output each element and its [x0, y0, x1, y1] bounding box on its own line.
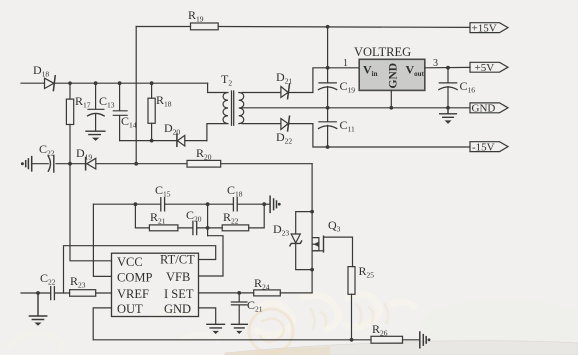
ground below GND rail	[440, 108, 457, 118]
node C13 top	[94, 81, 98, 85]
diode D18	[45, 78, 54, 88]
node VOLTREG GND on rail	[389, 106, 393, 110]
wire primary bottom step	[207, 124, 227, 141]
node C21 tap	[237, 291, 241, 295]
capacitor C18	[233, 198, 237, 211]
wire compensation top rail	[93, 203, 264, 205]
capacitor C22b	[51, 287, 55, 300]
capacitor C22 (input, curved plates)	[48, 156, 54, 173]
capacitor C14	[113, 83, 127, 140]
flag GND	[470, 103, 508, 113]
wire D20 row	[120, 140, 207, 142]
chassis ground right of R26	[420, 332, 426, 348]
chassis ground right of compensation rail	[264, 203, 270, 205]
capacitor C11 (polarized)	[319, 108, 336, 147]
chassis ground left of R20 rail	[26, 157, 32, 171]
node C19 bottom on GND rail	[326, 106, 330, 110]
node comp mid top	[206, 202, 210, 206]
node comp rail right riser	[262, 202, 266, 206]
svg-text:VREF: VREF	[117, 287, 149, 301]
diode D20	[177, 135, 184, 146]
wire IC GND pin	[199, 308, 216, 324]
wire VFB path	[199, 236, 224, 276]
controller IC U2 box	[112, 253, 199, 316]
flag +15V	[470, 23, 508, 33]
resistor R22	[222, 225, 249, 231]
wire comp mid vertical	[207, 204, 209, 236]
svg-text:VOLTREG: VOLTREG	[354, 45, 411, 59]
wire Vout to +5V flag	[425, 66, 470, 68]
wire primary top step	[208, 83, 227, 92]
node D23 branch top	[310, 210, 314, 214]
svg-text:VFB: VFB	[166, 270, 190, 284]
wire top rail to +15V	[136, 26, 470, 29]
svg-text:I SET: I SET	[164, 287, 194, 301]
node Vin column top	[326, 66, 330, 70]
wire VREF row	[21, 292, 112, 294]
voltage regulator U VOLTREG box	[359, 59, 425, 90]
svg-text:+5V: +5V	[475, 62, 495, 74]
node R25 on bottom rail	[350, 338, 354, 342]
ground below C13	[86, 131, 105, 134]
capacitor C20	[193, 221, 197, 234]
node R18 top	[150, 81, 154, 85]
decorative: bottom-right pale blob	[420, 299, 578, 351]
resistor R17	[69, 83, 71, 164]
svg-text:+15V: +15V	[472, 22, 497, 34]
wire RT/CT path over IC	[64, 246, 216, 293]
wire D23 branch	[296, 212, 312, 270]
wire VCC from supply vertical	[70, 164, 112, 261]
node R18 bottom	[150, 139, 154, 143]
svg-text:RT/CT: RT/CT	[160, 253, 195, 267]
wire secondary center tap GND rail	[243, 107, 471, 109]
decorative: orange emblem	[249, 309, 293, 353]
node C14 top	[118, 81, 122, 85]
wire R20 rail	[32, 163, 312, 165]
resistor R20	[187, 160, 221, 167]
wire comp network bottom row	[135, 204, 264, 228]
capacitor C16 (polarized)	[439, 68, 456, 108]
node D19 / vertical B junction	[134, 162, 138, 166]
svg-text:3: 3	[433, 58, 438, 69]
wire D22 output step down to -15V rail	[313, 124, 470, 147]
wire COMP to compensation rail	[93, 204, 111, 276]
wire secondary bottom to D22	[242, 123, 313, 125]
wire ISET row with R24	[199, 292, 313, 294]
node C11 bottom on -15V rail	[326, 145, 330, 149]
capacitor C15	[161, 198, 165, 211]
node C16 top	[446, 66, 450, 70]
resistor R18	[151, 83, 153, 140]
node C16 bottom on GND rail	[446, 106, 450, 110]
diode D22	[281, 119, 288, 130]
resistor R23	[70, 290, 96, 297]
node D23 branch bottom	[310, 268, 314, 272]
svg-text:-15V: -15V	[472, 141, 495, 153]
wire D18 input row	[21, 82, 208, 84]
diode D19	[87, 158, 96, 169]
zener diode D23	[291, 234, 300, 243]
node VREF ground tap	[36, 291, 40, 295]
flag -15V	[470, 142, 508, 152]
svg-text:COMP: COMP	[117, 271, 152, 285]
wire gate drive vertical	[311, 164, 313, 293]
wire Q3 source lead	[312, 250, 323, 252]
decorative: tan glyphs	[310, 303, 388, 330]
resistor R21	[149, 225, 178, 231]
svg-text:VCC: VCC	[117, 255, 143, 269]
node top-rail / C19 column	[326, 25, 330, 29]
ground below C21	[232, 324, 248, 328]
node C22/D19 junction	[68, 162, 72, 166]
transformer T2 core	[232, 91, 234, 125]
ground below IC GND pin	[207, 324, 225, 328]
capacitor C19 (polarized)	[319, 27, 336, 108]
transistor Q3 (MOSFET)	[312, 238, 319, 251]
svg-text:OUT: OUT	[117, 302, 143, 316]
wire VOLTREG GND pin	[390, 90, 392, 107]
resistor R24	[254, 290, 281, 296]
flag +5V	[470, 62, 508, 72]
decorative: bottom band	[225, 341, 578, 355]
ground below VREF tap	[29, 293, 46, 320]
wire OUT to bottom rail	[93, 308, 371, 340]
wire left vertical from top rail to R20 rail	[135, 27, 137, 164]
node comp mid bottom	[206, 226, 210, 230]
svg-text:1: 1	[343, 58, 348, 69]
node R17 top	[68, 81, 72, 85]
wire D21 output step up to Vin	[313, 68, 359, 93]
wire secondary top to D21	[242, 92, 313, 94]
resistor R19	[191, 23, 219, 30]
wire R26 to chassis ground	[403, 339, 420, 341]
svg-text:GND: GND	[164, 302, 191, 316]
diode D21	[281, 87, 288, 98]
svg-text:GND: GND	[472, 103, 496, 115]
capacitor C21	[231, 293, 247, 324]
decorative: cream calligraphy swirls	[255, 294, 416, 335]
transformer T2 secondary winding	[239, 93, 244, 124]
capacitor C13 (polarized)	[88, 83, 104, 131]
node comp rail left drop	[134, 202, 138, 206]
wire Q3 drain to R25	[324, 237, 353, 267]
svg-text:GND: GND	[388, 63, 400, 89]
resistor R26	[371, 336, 403, 343]
transformer T2 primary winding	[223, 93, 228, 124]
resistor R25	[348, 267, 355, 295]
decorative: bottom-left faint swirl	[8, 333, 62, 352]
